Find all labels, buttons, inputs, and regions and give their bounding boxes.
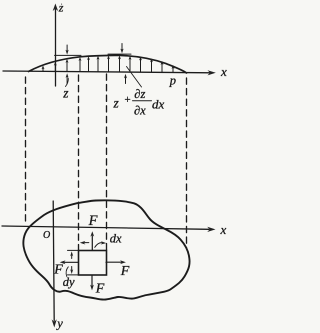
force F top arrow — [90, 231, 94, 250]
svg-text:dx: dx — [152, 97, 165, 112]
distributed load up arrow 1 — [42, 66, 45, 72]
distributed load up arrow 11 — [150, 58, 153, 72]
distributed load up arrow 6 — [97, 56, 100, 72]
dashed projection line left — [25, 77, 27, 225]
dashed projection line right — [186, 78, 188, 248]
down dimension arrow at z — [66, 45, 69, 55]
fraction bar — [133, 100, 152, 102]
dx dimension left arrow — [80, 241, 89, 245]
svg-text:x: x — [220, 64, 227, 79]
distributed load up arrow 3 — [66, 59, 69, 71]
svg-text:dx: dx — [110, 232, 122, 246]
distributed load up arrow 9 — [129, 56, 132, 72]
svg-text:F: F — [88, 213, 98, 229]
distributed load up arrow 8 — [118, 56, 121, 72]
svg-text:O: O — [43, 230, 50, 241]
dashed projection line at element left — [78, 75, 80, 250]
svg-text:F: F — [120, 264, 130, 279]
svg-text:F: F — [53, 263, 63, 278]
label z leader — [66, 79, 69, 87]
x-axis arrowhead (bottom) — [207, 227, 215, 232]
svg-text:∂z: ∂z — [134, 87, 145, 101]
y-axis arrowhead — [52, 319, 57, 327]
down dimension arrow at z+dz — [120, 44, 123, 54]
distributed load up arrow 10 — [139, 57, 142, 72]
force F bottom arrow — [90, 275, 94, 290]
y-axis — [53, 201, 54, 321]
membrane boundary blob — [23, 200, 189, 299]
x-axis arrowhead (top) — [208, 70, 216, 75]
distributed load up arrow 4 — [79, 57, 82, 71]
svg-text:∂x: ∂x — [134, 104, 146, 118]
dy bottom tick — [68, 274, 79, 276]
svg-text:.: . — [61, 1, 63, 7]
svg-text:y: y — [55, 317, 63, 331]
formula z + dz/dx dx — [113, 87, 165, 118]
distributed load up arrow 13 — [172, 65, 175, 72]
svg-text:p: p — [169, 73, 176, 87]
svg-text:x: x — [220, 222, 227, 237]
up dimension arrow below axis at z+dz — [124, 74, 127, 84]
dy leader — [66, 267, 68, 277]
distributed load up arrow 2 — [54, 62, 57, 72]
distributed load up arrow 12 — [161, 61, 164, 72]
distributed load up arrow 7 — [107, 56, 110, 72]
force F right arrow — [106, 260, 126, 264]
force F left arrow — [60, 260, 78, 264]
svg-text:z: z — [62, 86, 69, 101]
dy down arrow — [70, 267, 73, 275]
dy top tick — [68, 249, 79, 251]
up dimension arrow below axis at z — [66, 73, 69, 84]
dy up arrow — [70, 251, 73, 258]
svg-text:dy: dy — [63, 275, 75, 289]
formula leader — [127, 67, 142, 88]
z-axis — [55, 8, 57, 86]
distributed load up arrow 5 — [87, 56, 90, 71]
dx dimension hook arrow — [95, 241, 107, 247]
ordinate tick z+dz — [108, 53, 131, 55]
svg-text:z: z — [113, 96, 120, 111]
membrane curve — [29, 55, 187, 73]
svg-text:+: + — [124, 94, 131, 106]
x-axis (bottom) — [2, 226, 209, 229]
ordinate tick z — [55, 54, 82, 56]
dashed projection line at element right — [106, 74, 108, 250]
element square dx dy — [79, 251, 107, 276]
svg-text:F: F — [95, 282, 105, 297]
x-axis (top) — [3, 71, 212, 73]
z-axis arrowhead — [53, 4, 58, 12]
